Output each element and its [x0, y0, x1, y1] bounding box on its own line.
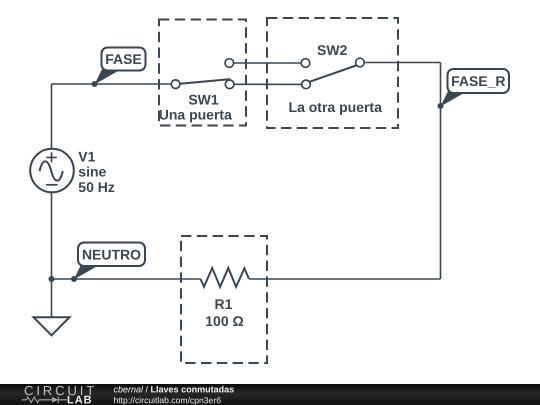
svg-text:FASE: FASE [105, 51, 142, 67]
label SW2 [317, 42, 348, 58]
enclosure R1 (dashed box) [181, 236, 267, 363]
switch SW1 [171, 59, 234, 89]
label 100 ohm [205, 313, 243, 329]
node flag FASE [95, 48, 146, 85]
wire right rail vertical [440, 63, 442, 280]
svg-text:sine: sine [78, 164, 106, 180]
node FASE junction dot [92, 81, 98, 87]
label La otra puerta [289, 99, 383, 115]
wire ground stem [51, 279, 53, 317]
resistor R1 [201, 268, 249, 287]
svg-text:La otra puerta: La otra puerta [289, 99, 383, 115]
node flag FASE_R [441, 69, 510, 106]
wire left rail bottom [51, 193, 53, 280]
svg-text:LAB: LAB [67, 394, 93, 405]
enclosure Una puerta (dashed box) [159, 20, 246, 126]
svg-text:R1: R1 [215, 296, 233, 312]
node FASE_R junction dot [438, 103, 444, 109]
CircuitLab logo resistor-diode glyph [22, 397, 67, 403]
wire left rail top [51, 84, 53, 149]
svg-text:Una puerta: Una puerta [159, 106, 232, 122]
svg-text:cbernal / Llaves conmutadas: cbernal / Llaves conmutadas [113, 384, 234, 394]
svg-text:100 Ω: 100 Ω [205, 313, 243, 329]
CircuitLab logo LAB [67, 394, 93, 405]
ground [34, 317, 70, 335]
voltage source V1 [30, 149, 74, 193]
wire bottom left to R1 [52, 278, 201, 280]
wire SW1 to SW2 lower [234, 83, 302, 85]
svg-text:http://circuitlab.com/cpn3er6: http://circuitlab.com/cpn3er6 [113, 395, 221, 405]
wire FASE horizontal [52, 83, 172, 85]
svg-text:FASE_R: FASE_R [451, 73, 505, 89]
enclosure La otra puerta (dashed box) [267, 18, 398, 128]
wire R1 to right rail [249, 278, 441, 280]
label V1 sine 50 Hz [78, 149, 115, 195]
wire SW2 common to right rail [364, 62, 440, 64]
node flag NEUTRO [74, 243, 145, 280]
node NEUTRO attach dot [71, 276, 77, 282]
svg-text:NEUTRO: NEUTRO [82, 246, 141, 262]
label R1 [215, 296, 233, 312]
footer url text [113, 395, 221, 405]
svg-text:SW1: SW1 [188, 92, 219, 108]
wire SW1 to SW2 upper [234, 62, 301, 64]
CircuitLab logo wordmark CIRCUIT [24, 383, 97, 398]
footer bar [0, 384, 540, 405]
label SW1 [188, 92, 219, 108]
svg-text:50 Hz: 50 Hz [78, 179, 115, 195]
label Una puerta [159, 106, 232, 122]
node NEUTRO junction dot left [49, 276, 55, 282]
svg-text:SW2: SW2 [317, 42, 348, 58]
svg-text:V1: V1 [78, 149, 95, 165]
switch SW2 [301, 58, 364, 88]
footer title text [113, 384, 234, 394]
